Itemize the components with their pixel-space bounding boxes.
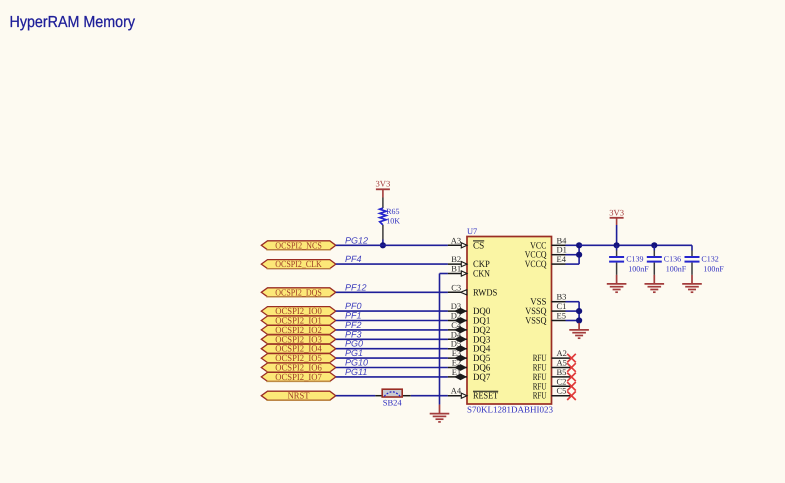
svg-text:PG11: PG11: [345, 367, 367, 377]
net name PG11: [345, 367, 367, 377]
net label OCSPI2_IO3: [261, 335, 336, 346]
pin name VSSQ r8: [525, 316, 546, 327]
svg-text:PF12: PF12: [345, 282, 367, 292]
net name PG10: [345, 358, 368, 368]
net name PG0: [345, 339, 363, 349]
svg-text:DQ7: DQ7: [473, 372, 490, 383]
junction VCC B4: [576, 242, 582, 248]
pin name RFU r15: [533, 381, 547, 392]
ground below C136: [645, 275, 665, 292]
pin name RESET: [473, 391, 498, 402]
wire net OCSPI2_IO7: [336, 376, 448, 378]
svg-text:RESET: RESET: [473, 391, 498, 402]
pin name DQ5: [473, 353, 490, 364]
junction rail C139: [614, 242, 620, 248]
svg-text:3V3: 3V3: [609, 208, 624, 218]
pin E5: [552, 311, 580, 321]
svg-text:10K: 10K: [386, 216, 400, 225]
svg-text:E4: E4: [557, 254, 567, 264]
pin name CS: [473, 240, 484, 251]
pin D4: [448, 329, 467, 342]
svg-text:NRST: NRST: [288, 392, 310, 402]
pin name VSS r6: [530, 297, 546, 308]
net label OCSPI2_IO2: [261, 325, 336, 336]
power 3V3 decoupling: [609, 208, 624, 225]
pin C5: [552, 386, 576, 400]
wire net OCSPI2_CLK: [336, 263, 448, 265]
pin D2: [448, 311, 467, 324]
svg-text:R65: R65: [386, 207, 399, 216]
svg-text:OCSPI2_DQS: OCSPI2_DQS: [275, 288, 322, 298]
svg-text:C136: C136: [664, 255, 681, 264]
net label OCSPI2_IO0: [261, 307, 336, 318]
net name PF12: [345, 282, 367, 292]
net name PG1: [345, 348, 363, 358]
wire net OCSPI2_NCS: [336, 244, 448, 246]
svg-text:U7: U7: [467, 227, 477, 236]
capacitor C132: [685, 245, 725, 275]
net label OCSPI2_CLK: [261, 260, 336, 271]
pin D1: [552, 245, 580, 255]
part number S70KL1281DABHI023: [467, 404, 554, 414]
wire R65 to NCS net: [382, 240, 384, 246]
svg-text:HyperRAM Memory: HyperRAM Memory: [10, 14, 136, 31]
svg-text:CKN: CKN: [473, 269, 490, 280]
wire net OCSPI2_IO4: [336, 348, 448, 350]
svg-text:3V3: 3V3: [375, 179, 390, 189]
pin name VCCQ r1: [525, 250, 547, 261]
svg-text:C139: C139: [626, 255, 643, 264]
ground VSS: [569, 323, 589, 338]
net name PF1: [345, 311, 362, 321]
pin A4: [448, 386, 467, 399]
pin name RFU r13: [533, 363, 547, 374]
net label OCSPI2_IO7: [261, 372, 336, 383]
net label OCSPI2_DQS: [261, 288, 336, 299]
wire net OCSPI2_IO1: [336, 320, 448, 322]
net label OCSPI2_IO5: [261, 354, 336, 365]
pin B1: [448, 264, 467, 277]
pin name DQ0: [473, 306, 490, 317]
net label OCSPI2_IO1: [261, 316, 336, 327]
svg-text:OCSPI2_IO7: OCSPI2_IO7: [275, 373, 322, 383]
ground CKN: [430, 405, 450, 422]
wire net OCSPI2_IO5: [336, 357, 448, 359]
wire VSS vertical: [578, 302, 580, 323]
net label OCSPI2_IO6: [261, 363, 336, 374]
svg-text:VCCQ: VCCQ: [525, 259, 547, 270]
net label NRST: [261, 391, 336, 402]
svg-text:CS: CS: [473, 240, 484, 251]
svg-text:SB24: SB24: [383, 397, 403, 407]
svg-text:OCSPI2_NCS: OCSPI2_NCS: [275, 241, 322, 251]
pin D5: [448, 339, 467, 352]
wire SB24 to RESET pin: [411, 395, 448, 397]
pin name RFU r16: [533, 391, 547, 402]
svg-text:E5: E5: [557, 311, 566, 321]
junction PG12/R65: [380, 242, 386, 248]
wire net OCSPI2_IO3: [336, 338, 448, 340]
pin A2: [552, 348, 576, 362]
pin E2: [448, 358, 467, 371]
pin A3: [448, 235, 467, 248]
pin name RFU r12: [533, 353, 547, 364]
wire NRST to SB24: [336, 395, 376, 397]
svg-text:C132: C132: [701, 255, 718, 264]
net name PF0: [345, 301, 362, 311]
wire 3V3 to rail: [616, 225, 618, 245]
pin name CKN: [473, 269, 490, 280]
pin B2: [448, 254, 467, 267]
svg-text:C3: C3: [451, 282, 461, 292]
power 3V3 pull-up: [375, 179, 390, 198]
svg-text:PF4: PF4: [345, 254, 362, 264]
pin name VCC r0: [530, 240, 546, 251]
pin D3: [448, 301, 467, 314]
svg-text:VSSQ: VSSQ: [525, 316, 546, 327]
net name PF2: [345, 320, 362, 330]
pin B4: [552, 235, 580, 245]
svg-text:C5: C5: [557, 386, 567, 396]
pin name VCCQ r2: [525, 259, 547, 270]
pin name DQ2: [473, 325, 490, 336]
designator U7: [467, 227, 477, 236]
svg-text:B1: B1: [451, 264, 461, 274]
resistor R65 10K: [380, 198, 401, 240]
net label OCSPI2_NCS: [261, 241, 336, 252]
junction VSS E5: [576, 317, 582, 323]
svg-text:PG12: PG12: [345, 235, 368, 245]
pin B3: [552, 292, 580, 302]
junction rail C136: [651, 242, 657, 248]
wire net OCSPI2_IO6: [336, 367, 448, 369]
wire VCC vertical: [578, 245, 580, 264]
capacitor C136: [647, 245, 687, 275]
pin A5: [552, 358, 576, 372]
pin C2: [552, 376, 576, 390]
junction VSS C1: [576, 308, 582, 314]
pin name RWDS: [473, 287, 497, 298]
pin name VSSQ r7: [525, 306, 546, 317]
pin C4: [448, 320, 467, 333]
net label OCSPI2_IO4: [261, 344, 336, 355]
svg-text:100nF: 100nF: [628, 264, 649, 273]
pin name DQ1: [473, 316, 490, 327]
solder bridge SB24: [375, 389, 411, 407]
pin name DQ3: [473, 334, 490, 345]
pin E4: [552, 254, 580, 264]
pin name RFU r14: [533, 372, 547, 383]
svg-text:RFU: RFU: [533, 391, 547, 402]
pin E1: [448, 367, 467, 380]
svg-text:RWDS: RWDS: [473, 287, 497, 298]
pin name CKP: [473, 259, 490, 270]
pin C1: [552, 301, 580, 311]
ground below C132: [682, 275, 702, 292]
wire CKN to ground: [440, 274, 448, 405]
wire net OCSPI2_DQS: [336, 291, 448, 293]
title HyperRAM Memory: [10, 14, 136, 31]
svg-text:E1: E1: [452, 367, 461, 377]
svg-text:OCSPI2_CLK: OCSPI2_CLK: [275, 260, 322, 270]
pin name DQ6: [473, 363, 490, 374]
ground below C139: [607, 275, 627, 292]
svg-text:A3: A3: [451, 235, 461, 245]
svg-text:S70KL1281DABHI023: S70KL1281DABHI023: [467, 404, 554, 414]
pin C3: [448, 282, 467, 295]
net name PF3: [345, 329, 362, 339]
wire VCC rail: [579, 244, 692, 246]
pin name DQ7: [473, 372, 490, 383]
junction VCC D1: [576, 252, 582, 258]
svg-text:A4: A4: [451, 386, 462, 396]
pin name DQ4: [473, 344, 490, 355]
capacitor C139: [609, 245, 649, 275]
svg-text:100nF: 100nF: [666, 264, 687, 273]
IC U7 body: [467, 237, 552, 405]
svg-text:100nF: 100nF: [703, 264, 724, 273]
net name PF4: [345, 254, 362, 264]
wire net OCSPI2_IO2: [336, 329, 448, 331]
wire net OCSPI2_IO0: [336, 310, 448, 312]
pin B5: [552, 367, 576, 381]
pin E3: [448, 348, 467, 361]
net name PG12: [345, 235, 368, 245]
